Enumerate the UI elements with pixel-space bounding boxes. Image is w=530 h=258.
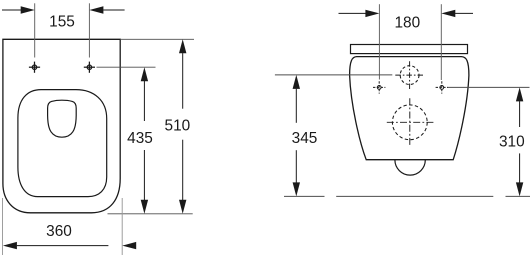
dimension 510 line lower: [182, 140, 184, 200]
dimension 310 line upper: [519, 101, 521, 127]
dimension 435 line lower: [143, 150, 145, 200]
dimension 155 arrow right: [89, 6, 103, 13]
dimension 345 arrow down: [293, 182, 300, 196]
rear view outlet crosshair: [387, 98, 434, 146]
rear view outlet circle: [392, 105, 427, 140]
rear view water inlet circle: [400, 66, 419, 85]
dimension 310 arrow down: [516, 182, 523, 196]
dimension 510 arrow up: [179, 39, 186, 53]
dimension 510 line upper: [182, 53, 184, 109]
rear view cistern lid: [351, 45, 468, 54]
dimension 345 line lower: [295, 150, 297, 182]
rear view body outline: [350, 57, 469, 160]
dimension 360 arrow right: [122, 242, 136, 249]
reference line fixing hole to 435: [97, 66, 156, 68]
floor line right segment: [506, 195, 530, 197]
dimension 180 extension line left: [378, 4, 380, 79]
dimension 180 line left tail: [339, 12, 366, 14]
rear view outlet bump: [395, 160, 425, 175]
plan fixing hole right: [84, 62, 95, 73]
rear view inlet crosshair: [395, 61, 424, 89]
plan view outer outline: [3, 39, 120, 213]
dimension 360 extension line left: [2, 198, 4, 255]
dimension 360 arrow left: [3, 242, 17, 249]
dimension 360 extension line right: [121, 198, 123, 255]
floor line left segment: [284, 195, 325, 197]
dimension 180 arrow right: [441, 10, 455, 17]
plan view flush opening: [48, 100, 77, 137]
dimension 345 arrow up: [293, 75, 300, 89]
dimension 180 line right tail: [455, 12, 473, 14]
dimension 180 arrow left: [365, 10, 379, 17]
dimension 310 arrow up: [516, 87, 523, 101]
dimension 155 extension line left: [34, 3, 36, 57]
dimension 435 line upper: [143, 81, 145, 121]
svg-text:155: 155: [49, 14, 75, 31]
svg-text:435: 435: [127, 130, 153, 147]
dimension 510 arrow down: [179, 200, 186, 214]
svg-text:360: 360: [46, 223, 72, 240]
svg-text:310: 310: [499, 133, 525, 150]
rear view fixing hole right: [436, 81, 448, 93]
dimension 435 arrow up: [141, 67, 148, 81]
dimension 155 line left tail: [2, 9, 21, 11]
dimension 155 arrow left: [21, 6, 35, 13]
dimension 180 extension line right: [440, 4, 442, 80]
reference line top of pan to 510: [120, 38, 194, 40]
svg-text:180: 180: [394, 15, 420, 32]
rear view fixing hole left: [373, 81, 385, 93]
reference line fixing hole to 310: [448, 86, 530, 88]
svg-text:510: 510: [165, 118, 191, 135]
reference line inlet to 345: [275, 74, 392, 76]
dimension 310 line lower: [519, 153, 521, 182]
dimension 435 arrow down: [141, 200, 148, 214]
dimension 155 line right tail: [103, 9, 124, 11]
svg-text:345: 345: [292, 130, 318, 147]
dimension 155 extension line right: [88, 3, 90, 57]
plan fixing hole left: [29, 62, 40, 73]
dimension 360 line: [17, 245, 109, 247]
dimension 345 line upper: [295, 89, 297, 123]
reference line bottom of pan: [108, 213, 193, 215]
plan view inner rim: [18, 90, 107, 197]
floor line middle segment: [336, 195, 493, 197]
